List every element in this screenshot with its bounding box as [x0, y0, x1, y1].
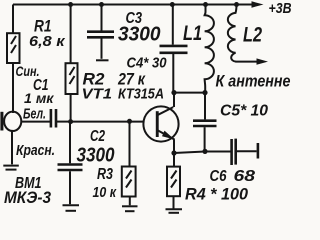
transistor VT1: [143, 106, 178, 141]
capacitor C5: [193, 102, 268, 126]
capacitor C3: [87, 10, 161, 46]
node L1 top: [203, 2, 208, 7]
node R2 top: [68, 2, 73, 7]
wire R3 top lead: [129, 121, 131, 166]
wire top +3V rail: [13, 4, 253, 6]
svg-text:10 к: 10 к: [93, 184, 118, 201]
wire R4 top lead: [173, 153, 175, 167]
wire emitter to C6: [174, 152, 231, 154]
svg-text:L1: L1: [183, 22, 202, 45]
resistor R4: [167, 167, 180, 197]
svg-text:Бел.: Бел.: [23, 106, 46, 123]
capacitor C4: [127, 46, 188, 72]
node base-left junction: [68, 119, 73, 124]
wire C6 to terminal: [237, 150, 257, 152]
microphone BM1: [0, 112, 51, 208]
resistor R2: [66, 63, 147, 94]
svg-text:КТ315А: КТ315А: [118, 85, 164, 102]
wire R2 top lead: [70, 5, 72, 64]
svg-text:МКЭ-3: МКЭ-3: [4, 189, 51, 207]
ground (R3): [122, 206, 138, 211]
capacitor C1: [24, 77, 56, 127]
node L2 top: [234, 2, 239, 7]
node C5 bottom: [202, 149, 207, 154]
antenna arrow: [216, 58, 291, 90]
wire R2 bottom lead: [70, 94, 72, 122]
ground (C3): [96, 59, 109, 61]
wire R4 bottom lead: [173, 196, 175, 208]
wire C4 to collector node: [172, 54, 174, 93]
node tank bottom: [202, 90, 207, 95]
svg-text:С6: С6: [210, 168, 227, 185]
svg-text:3300: 3300: [77, 145, 115, 167]
inductor L1: [183, 5, 214, 93]
supply arrow +3V: [252, 0, 292, 17]
wire C3 bottom lead: [101, 39, 103, 59]
wire collector to tank: [174, 92, 205, 94]
terminal bar (antenna tap): [257, 143, 260, 159]
node R3 junction: [127, 119, 132, 124]
ground (microphone): [3, 166, 18, 170]
wire R1 to microphone: [12, 63, 14, 113]
svg-text:С5* 10: С5* 10: [220, 102, 268, 119]
capacitor C2: [58, 128, 115, 170]
svg-text:3300: 3300: [118, 24, 161, 46]
resistor R1: [7, 16, 66, 63]
node emitter: [171, 150, 176, 155]
wire microphone to C1: [21, 121, 50, 123]
svg-text:С4* 30: С4* 30: [127, 54, 168, 71]
wire emitter lead: [173, 140, 175, 154]
wire C3 top lead: [101, 5, 103, 31]
wire C1 to base node: [57, 121, 71, 123]
wire C5 bottom lead: [204, 127, 206, 151]
inductor L2: [228, 5, 262, 62]
svg-text:6,8 к: 6,8 к: [29, 33, 66, 50]
ground (C2): [63, 205, 80, 211]
svg-text:С2: С2: [90, 128, 105, 145]
wire base: [71, 121, 144, 123]
svg-text:VT1: VT1: [82, 85, 113, 102]
svg-text:R4 * 100: R4 * 100: [185, 185, 249, 204]
svg-text:+3В: +3В: [269, 0, 292, 17]
wire C2 top lead: [69, 122, 71, 164]
resistor R3: [93, 166, 136, 201]
svg-text:К антенне: К антенне: [216, 72, 291, 90]
node C4 top: [170, 2, 175, 7]
ground (R4): [166, 209, 183, 213]
svg-text:68: 68: [234, 168, 256, 185]
svg-text:Красн.: Красн.: [16, 142, 55, 159]
node collector: [171, 90, 176, 95]
wire C2 bottom lead: [69, 171, 71, 204]
wire collector lead: [173, 93, 175, 107]
svg-text:1 мк: 1 мк: [24, 90, 54, 106]
capacitor C6: [210, 139, 256, 185]
node C3 top: [99, 2, 104, 7]
wire left drop to R1: [12, 5, 14, 34]
svg-text:R3: R3: [97, 166, 113, 183]
wire R3 bottom lead: [129, 197, 131, 206]
wire microphone to ground: [11, 130, 13, 164]
wire C5 top lead: [204, 93, 206, 120]
svg-text:L2: L2: [243, 23, 262, 46]
wire C4 top lead: [172, 5, 174, 45]
